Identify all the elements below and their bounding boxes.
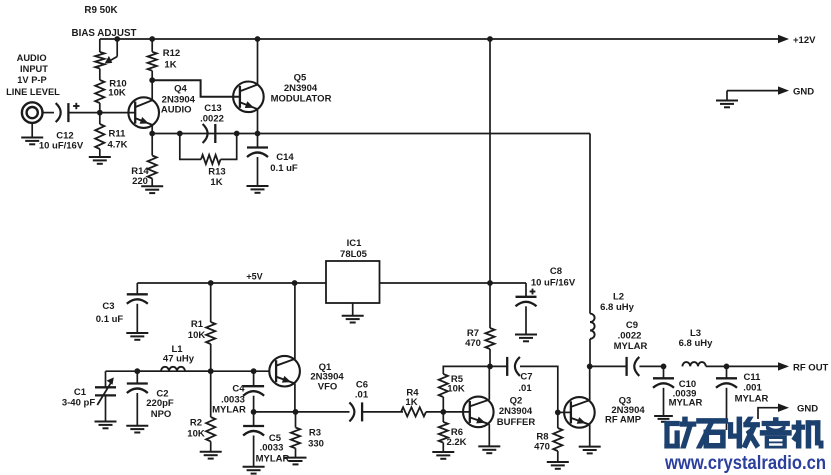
node Q3 collector junction bbox=[587, 364, 593, 370]
svg-text:MYLAR: MYLAR bbox=[212, 405, 246, 416]
svg-text:R11: R11 bbox=[109, 129, 127, 140]
svg-text:Q4: Q4 bbox=[174, 84, 187, 95]
wire R11 to ground bbox=[99, 149, 101, 157]
label R8 bbox=[534, 432, 550, 453]
wire tank line bbox=[106, 370, 270, 372]
svg-text:GND: GND bbox=[797, 404, 818, 415]
wire Q3 emitter bbox=[589, 425, 591, 447]
resistor R14 bbox=[148, 134, 157, 187]
svg-text:+12V: +12V bbox=[793, 35, 816, 46]
+12V arrow terminal bbox=[778, 35, 816, 46]
resistor R1 bbox=[206, 283, 215, 371]
capacitor C11 bbox=[716, 366, 737, 430]
label R12 bbox=[163, 48, 180, 71]
wire IC1 output to C8 corner bbox=[380, 283, 527, 297]
transistor Q3 bbox=[564, 397, 595, 428]
capacitor C1 variable bbox=[95, 371, 116, 421]
svg-text:Q2: Q2 bbox=[510, 396, 523, 407]
ground symbol R3 bbox=[285, 458, 307, 465]
capacitor C14 bbox=[247, 134, 268, 186]
svg-text:RF AMP: RF AMP bbox=[605, 415, 642, 426]
RF OUT arrow terminal bbox=[778, 362, 829, 373]
label C1 bbox=[62, 387, 95, 409]
svg-text:1K: 1K bbox=[164, 60, 176, 71]
svg-text:330: 330 bbox=[308, 439, 324, 450]
label C4 bbox=[212, 384, 246, 416]
label Q4 bbox=[161, 84, 196, 116]
label R10 bbox=[108, 79, 126, 99]
wire Q3 collector bbox=[589, 366, 591, 400]
svg-text:Q5: Q5 bbox=[294, 73, 307, 84]
ground symbol C2 bbox=[126, 426, 148, 433]
wire IC1 ground stub bbox=[352, 303, 354, 316]
label Q1 bbox=[310, 362, 344, 393]
IC U1 78L05 regulator box bbox=[326, 261, 380, 303]
node audio input junction bbox=[97, 110, 103, 116]
label L3 bbox=[679, 328, 714, 349]
ground symbol IC1 bbox=[342, 316, 364, 323]
ground symbol C3 bbox=[126, 333, 148, 340]
ground symbol C1 bbox=[95, 422, 117, 429]
node Q4 collector / R12 bottom bbox=[149, 77, 155, 83]
label R7 bbox=[465, 328, 481, 349]
capacitor C6 bbox=[349, 402, 362, 421]
label C8 bbox=[531, 266, 576, 289]
resistor R6 bbox=[439, 412, 448, 452]
svg-text:LINE LEVEL: LINE LEVEL bbox=[6, 87, 60, 97]
watermark url bbox=[664, 452, 826, 474]
ground symbol C5 bbox=[243, 467, 265, 474]
ground symbol C14 bbox=[247, 186, 269, 193]
label R9 50K bbox=[84, 5, 117, 16]
label R2 bbox=[187, 418, 205, 440]
wire Q2 collector bbox=[488, 366, 490, 399]
label L1 bbox=[163, 344, 195, 365]
svg-text:INPUT: INPUT bbox=[20, 64, 48, 74]
svg-text:10K: 10K bbox=[188, 330, 206, 341]
wire C9 to C10 node bbox=[639, 365, 663, 367]
label C12 bbox=[39, 131, 84, 152]
polarity plus C12 bbox=[73, 103, 79, 109]
label R1 bbox=[188, 319, 206, 341]
wire R4 to Q2 node bbox=[426, 411, 443, 413]
svg-text:C8: C8 bbox=[550, 266, 562, 277]
node R1 bottom / R2 top bbox=[208, 368, 214, 374]
wire Q2 emitter bbox=[488, 424, 490, 446]
potentiometer R9 wiper arrow bbox=[105, 39, 118, 64]
capacitor C13 bbox=[203, 124, 216, 143]
capacitor C3 bbox=[127, 283, 148, 333]
node C4 top bbox=[251, 368, 257, 374]
svg-text:1K: 1K bbox=[210, 177, 222, 188]
wire Q3 base bbox=[558, 411, 571, 413]
resistor R7 bbox=[485, 283, 494, 366]
svg-text:.01: .01 bbox=[518, 383, 532, 394]
capacitor C2 bbox=[127, 371, 148, 425]
wire RF out bbox=[727, 365, 779, 367]
transistor Q4 bbox=[128, 97, 159, 128]
GND arrow terminal bottom right bbox=[778, 404, 818, 415]
transistor Q1 bbox=[269, 356, 300, 387]
node C11 top bbox=[724, 364, 730, 370]
transistor Q2 bbox=[463, 397, 494, 428]
svg-text:1V P-P: 1V P-P bbox=[17, 75, 46, 85]
wire Q4 collector to Q5 base bbox=[152, 80, 239, 97]
svg-text:C1: C1 bbox=[74, 387, 87, 398]
watermark crystalradio logo bbox=[665, 417, 823, 448]
node Q4 emitter / R14 bbox=[149, 131, 155, 137]
wire Q4 collector bbox=[151, 80, 153, 100]
svg-text:MYLAR: MYLAR bbox=[735, 394, 769, 405]
node Q2 base junction bbox=[440, 409, 446, 415]
ground symbol R14 bbox=[141, 186, 163, 193]
node C10 top bbox=[661, 364, 667, 370]
resistor R12 bbox=[148, 39, 157, 80]
wire Q4 emitter bbox=[151, 125, 153, 134]
label C14 bbox=[270, 152, 298, 174]
wire modulated line bbox=[152, 133, 590, 135]
svg-text:2.2K: 2.2K bbox=[446, 437, 466, 448]
node rail junction Q5 collector bbox=[255, 36, 261, 42]
svg-text:C3: C3 bbox=[102, 301, 114, 312]
svg-text:R12: R12 bbox=[163, 48, 180, 59]
node Q3 base junction bbox=[555, 410, 561, 416]
svg-text:1K: 1K bbox=[405, 397, 417, 408]
svg-text:AUDIO: AUDIO bbox=[161, 105, 192, 116]
node rail junction R9 wiper bbox=[114, 36, 120, 42]
svg-text:R9 50K: R9 50K bbox=[84, 5, 117, 16]
node Q1 emitter / R3 bbox=[293, 409, 299, 415]
ground symbol R2 bbox=[200, 452, 222, 459]
resistor R8 bbox=[553, 412, 562, 461]
inductor L1 bbox=[137, 367, 210, 371]
wire R13 loop bbox=[180, 134, 237, 160]
label Q5 bbox=[271, 73, 332, 105]
label Q2 bbox=[497, 396, 536, 429]
node Q5 emitter / C14 bbox=[255, 131, 261, 137]
label R6 bbox=[446, 427, 466, 448]
wire Q1 emitter bbox=[294, 383, 296, 412]
node R1 top bbox=[208, 280, 214, 286]
label C5 bbox=[256, 433, 290, 465]
ground symbol C8 bbox=[515, 335, 537, 342]
label AUDIO INPUT block bbox=[6, 53, 60, 97]
svg-text:R3: R3 bbox=[309, 428, 321, 439]
node Q2 collector junction bbox=[487, 364, 493, 370]
svg-text:2N3904: 2N3904 bbox=[284, 83, 318, 94]
svg-text:VFO: VFO bbox=[318, 382, 338, 393]
svg-text:R1: R1 bbox=[191, 319, 204, 330]
wire R9 to R10 bbox=[99, 69, 101, 81]
node +5V / IC input junction bbox=[487, 280, 493, 286]
polarity plus C8 bbox=[530, 289, 536, 295]
node C4 bottom / C5 top bbox=[251, 409, 257, 415]
resistor R5 bbox=[439, 374, 448, 412]
svg-text:www.crystalradio.cn: www.crystalradio.cn bbox=[664, 452, 826, 474]
ground symbol R11 bbox=[89, 157, 111, 164]
svg-text:IC1: IC1 bbox=[347, 238, 363, 249]
ground symbol R8 bbox=[547, 462, 569, 469]
label +5V bbox=[246, 272, 262, 282]
svg-text:NPO: NPO bbox=[151, 409, 172, 420]
ground symbol Q2 emitter bbox=[478, 446, 500, 453]
wire input node to Q4 base bbox=[100, 112, 135, 114]
node Q1 collector riser bbox=[292, 280, 298, 286]
node rail junction IC1 input feed bbox=[487, 36, 493, 42]
capacitor C7 bbox=[490, 357, 558, 413]
ground symbol C10 bbox=[654, 416, 673, 422]
svg-text:470: 470 bbox=[534, 442, 550, 453]
svg-text:C13: C13 bbox=[204, 103, 221, 114]
ground symbol jack bbox=[21, 138, 43, 145]
svg-text:10 uF/16V: 10 uF/16V bbox=[531, 278, 576, 289]
capacitor C5 bbox=[243, 412, 264, 467]
svg-text:C14: C14 bbox=[276, 152, 294, 163]
label IC1 78L05 bbox=[340, 238, 368, 260]
svg-text:6.8 uHy: 6.8 uHy bbox=[600, 302, 635, 313]
svg-text:+5V: +5V bbox=[246, 272, 262, 282]
capacitor C4 bbox=[243, 371, 264, 412]
wire R5 top corner bbox=[443, 366, 490, 374]
svg-text:MODULATOR: MODULATOR bbox=[271, 94, 332, 105]
svg-text:.001: .001 bbox=[743, 383, 762, 394]
svg-text:.0033: .0033 bbox=[260, 443, 284, 454]
svg-text:10K: 10K bbox=[108, 88, 126, 99]
wire VFO out line bbox=[254, 411, 350, 413]
wire C6 to R4 bbox=[362, 411, 403, 413]
svg-text:BIAS ADJUST: BIAS ADJUST bbox=[72, 28, 137, 39]
resistor R13 bbox=[201, 155, 221, 164]
svg-text:470: 470 bbox=[465, 338, 481, 349]
wire 12V feed vertical bbox=[489, 39, 491, 283]
resistor R11 bbox=[95, 113, 104, 149]
wire Q2 base bbox=[443, 411, 469, 413]
svg-text:C9: C9 bbox=[626, 320, 638, 331]
ground symbol R6 bbox=[432, 452, 454, 459]
label R14 bbox=[131, 166, 149, 187]
resistor R10 bbox=[95, 80, 104, 103]
capacitor C9 bbox=[590, 357, 640, 376]
capacitor C10 bbox=[653, 366, 674, 415]
ground symbol top right bbox=[716, 101, 738, 108]
gnd terminal top right wire bbox=[727, 91, 779, 100]
node rail junction R12 bbox=[149, 36, 155, 42]
svg-text:10K: 10K bbox=[187, 429, 205, 440]
svg-text:GND: GND bbox=[793, 87, 814, 98]
potentiometer R9 body bbox=[95, 52, 104, 69]
svg-text:2N3904: 2N3904 bbox=[499, 406, 533, 417]
label C2 bbox=[146, 389, 174, 421]
resistor R4 bbox=[401, 407, 426, 416]
svg-text:.01: .01 bbox=[355, 390, 369, 401]
svg-text:C7: C7 bbox=[520, 372, 532, 383]
wire C12 to input node bbox=[68, 112, 99, 114]
label R11 bbox=[107, 129, 127, 151]
capacitor C8 bbox=[516, 297, 537, 334]
svg-text:3-40 pF: 3-40 pF bbox=[62, 398, 95, 409]
wire modulated line corner down bbox=[589, 134, 591, 314]
label R5 bbox=[447, 374, 465, 395]
resistor R3 bbox=[291, 412, 300, 457]
wire +12V top rail bbox=[100, 39, 779, 52]
label C7 bbox=[518, 372, 532, 395]
label R13 bbox=[208, 167, 225, 189]
inductor L2 bbox=[590, 314, 595, 367]
svg-text:.0022: .0022 bbox=[200, 114, 224, 125]
node C2 top bbox=[134, 368, 140, 374]
svg-text:L2: L2 bbox=[613, 292, 624, 303]
wire jack to C12 bbox=[43, 112, 55, 114]
capacitor C12 bbox=[56, 103, 69, 122]
svg-text:R2: R2 bbox=[190, 418, 202, 429]
wire +5V line bbox=[137, 282, 326, 284]
label C13 bbox=[200, 103, 224, 125]
svg-text:220pF: 220pF bbox=[146, 398, 174, 409]
node C13 right bbox=[234, 131, 240, 137]
label C11 bbox=[735, 372, 769, 405]
wire jack to ground bbox=[31, 123, 33, 137]
label C10 bbox=[669, 379, 703, 409]
ground symbol Q3 emitter bbox=[579, 447, 601, 454]
svg-text:0.1 uF: 0.1 uF bbox=[96, 314, 124, 325]
svg-text:6.8 uHy: 6.8 uHy bbox=[679, 338, 714, 349]
svg-text:10K: 10K bbox=[447, 384, 465, 395]
svg-text:MYLAR: MYLAR bbox=[256, 454, 290, 465]
inductor L3 bbox=[682, 362, 726, 366]
svg-text:4.7K: 4.7K bbox=[107, 140, 127, 151]
svg-text:C11: C11 bbox=[744, 372, 762, 383]
label BIAS ADJUST bbox=[72, 28, 137, 39]
wire R10 to input node bbox=[99, 103, 101, 113]
gnd terminal bottom right wire bbox=[758, 408, 779, 419]
wire Q5 emitter down bbox=[257, 109, 259, 134]
wire Q1 collector riser bbox=[294, 283, 296, 359]
label R4 bbox=[405, 388, 419, 409]
svg-text:R13: R13 bbox=[208, 167, 225, 178]
svg-text:BUFFER: BUFFER bbox=[497, 417, 536, 428]
label L2 bbox=[600, 292, 635, 314]
transistor Q5 bbox=[233, 82, 264, 113]
GND arrow terminal top right bbox=[778, 86, 814, 97]
label C9 bbox=[614, 320, 648, 352]
svg-text:RF OUT: RF OUT bbox=[793, 362, 829, 373]
label C3 bbox=[96, 301, 124, 325]
svg-text:0.1 uF: 0.1 uF bbox=[270, 163, 298, 174]
label Q3 bbox=[605, 396, 645, 426]
svg-text:MYLAR: MYLAR bbox=[669, 398, 703, 409]
svg-text:47 uHy: 47 uHy bbox=[163, 354, 195, 365]
svg-text:.0022: .0022 bbox=[618, 331, 642, 342]
connector J1 audio jack bbox=[22, 102, 43, 123]
svg-text:MYLAR: MYLAR bbox=[614, 341, 648, 352]
wire Q5 collector to rail bbox=[257, 39, 259, 85]
svg-text:78L05: 78L05 bbox=[340, 249, 368, 260]
node C13 left bbox=[177, 131, 183, 137]
resistor R2 bbox=[206, 371, 215, 451]
svg-text:10 uF/16V: 10 uF/16V bbox=[39, 141, 84, 152]
svg-text:C4: C4 bbox=[232, 384, 245, 395]
svg-text:AUDIO: AUDIO bbox=[17, 53, 47, 63]
label C6 bbox=[355, 380, 369, 401]
label R3 bbox=[308, 428, 324, 450]
